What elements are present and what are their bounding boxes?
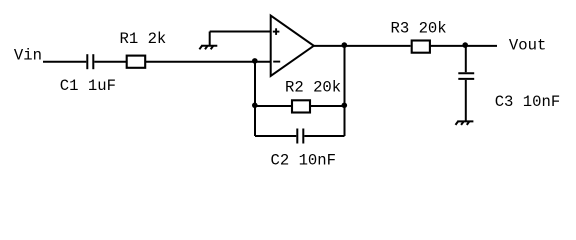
resistor R2 [292,100,310,112]
svg-text:Vout: Vout [509,36,546,54]
wire C1 to R1 [94,61,126,63]
wire feedback left vertical [254,62,256,136]
svg-text:C1 1uF: C1 1uF [60,77,116,95]
resistor R3 [412,41,430,53]
wire ground to non-inverting input [210,31,271,33]
svg-text:Vin: Vin [14,46,42,64]
resistor R1 [127,56,146,68]
op-amp U1 [271,16,314,77]
node Vout junction dot [462,42,468,48]
wire C2 row left [255,135,296,137]
pin - (inverting) [273,61,280,63]
wire Vin to C1 [43,61,86,63]
wire R3 to Vout [430,45,498,47]
capacitor C1 [87,54,93,69]
wire feedback right vertical [344,46,346,136]
capacitor C2 [297,129,303,144]
node B junction dot (output / feedback) [342,42,348,48]
wire R1 to op-amp inverting input [146,61,271,63]
node A junction dot (inverting input / feedback) [252,58,258,64]
wire R2 right [310,105,344,107]
svg-text:C3 10nF: C3 10nF [495,93,561,111]
svg-text:R2 20k: R2 20k [285,79,341,97]
node junction dot (R2 right) [342,103,348,109]
wire C3 to ground [465,80,467,121]
capacitor C3 [458,73,474,79]
wire C2 row right [304,135,344,137]
ground (under C3) [456,121,474,125]
wire to R2 left [255,105,291,107]
node junction dot (R2 left) [252,103,258,109]
pin + (non-inverting) [273,28,280,35]
svg-text:R3 20k: R3 20k [391,20,447,38]
wire Vout node to C3 [465,46,467,72]
svg-text:R1 2k: R1 2k [120,30,167,48]
wire op-amp output to R3 [314,45,411,47]
svg-text:C2 10nF: C2 10nF [271,151,337,169]
ground (non-inverting input) [199,32,217,50]
